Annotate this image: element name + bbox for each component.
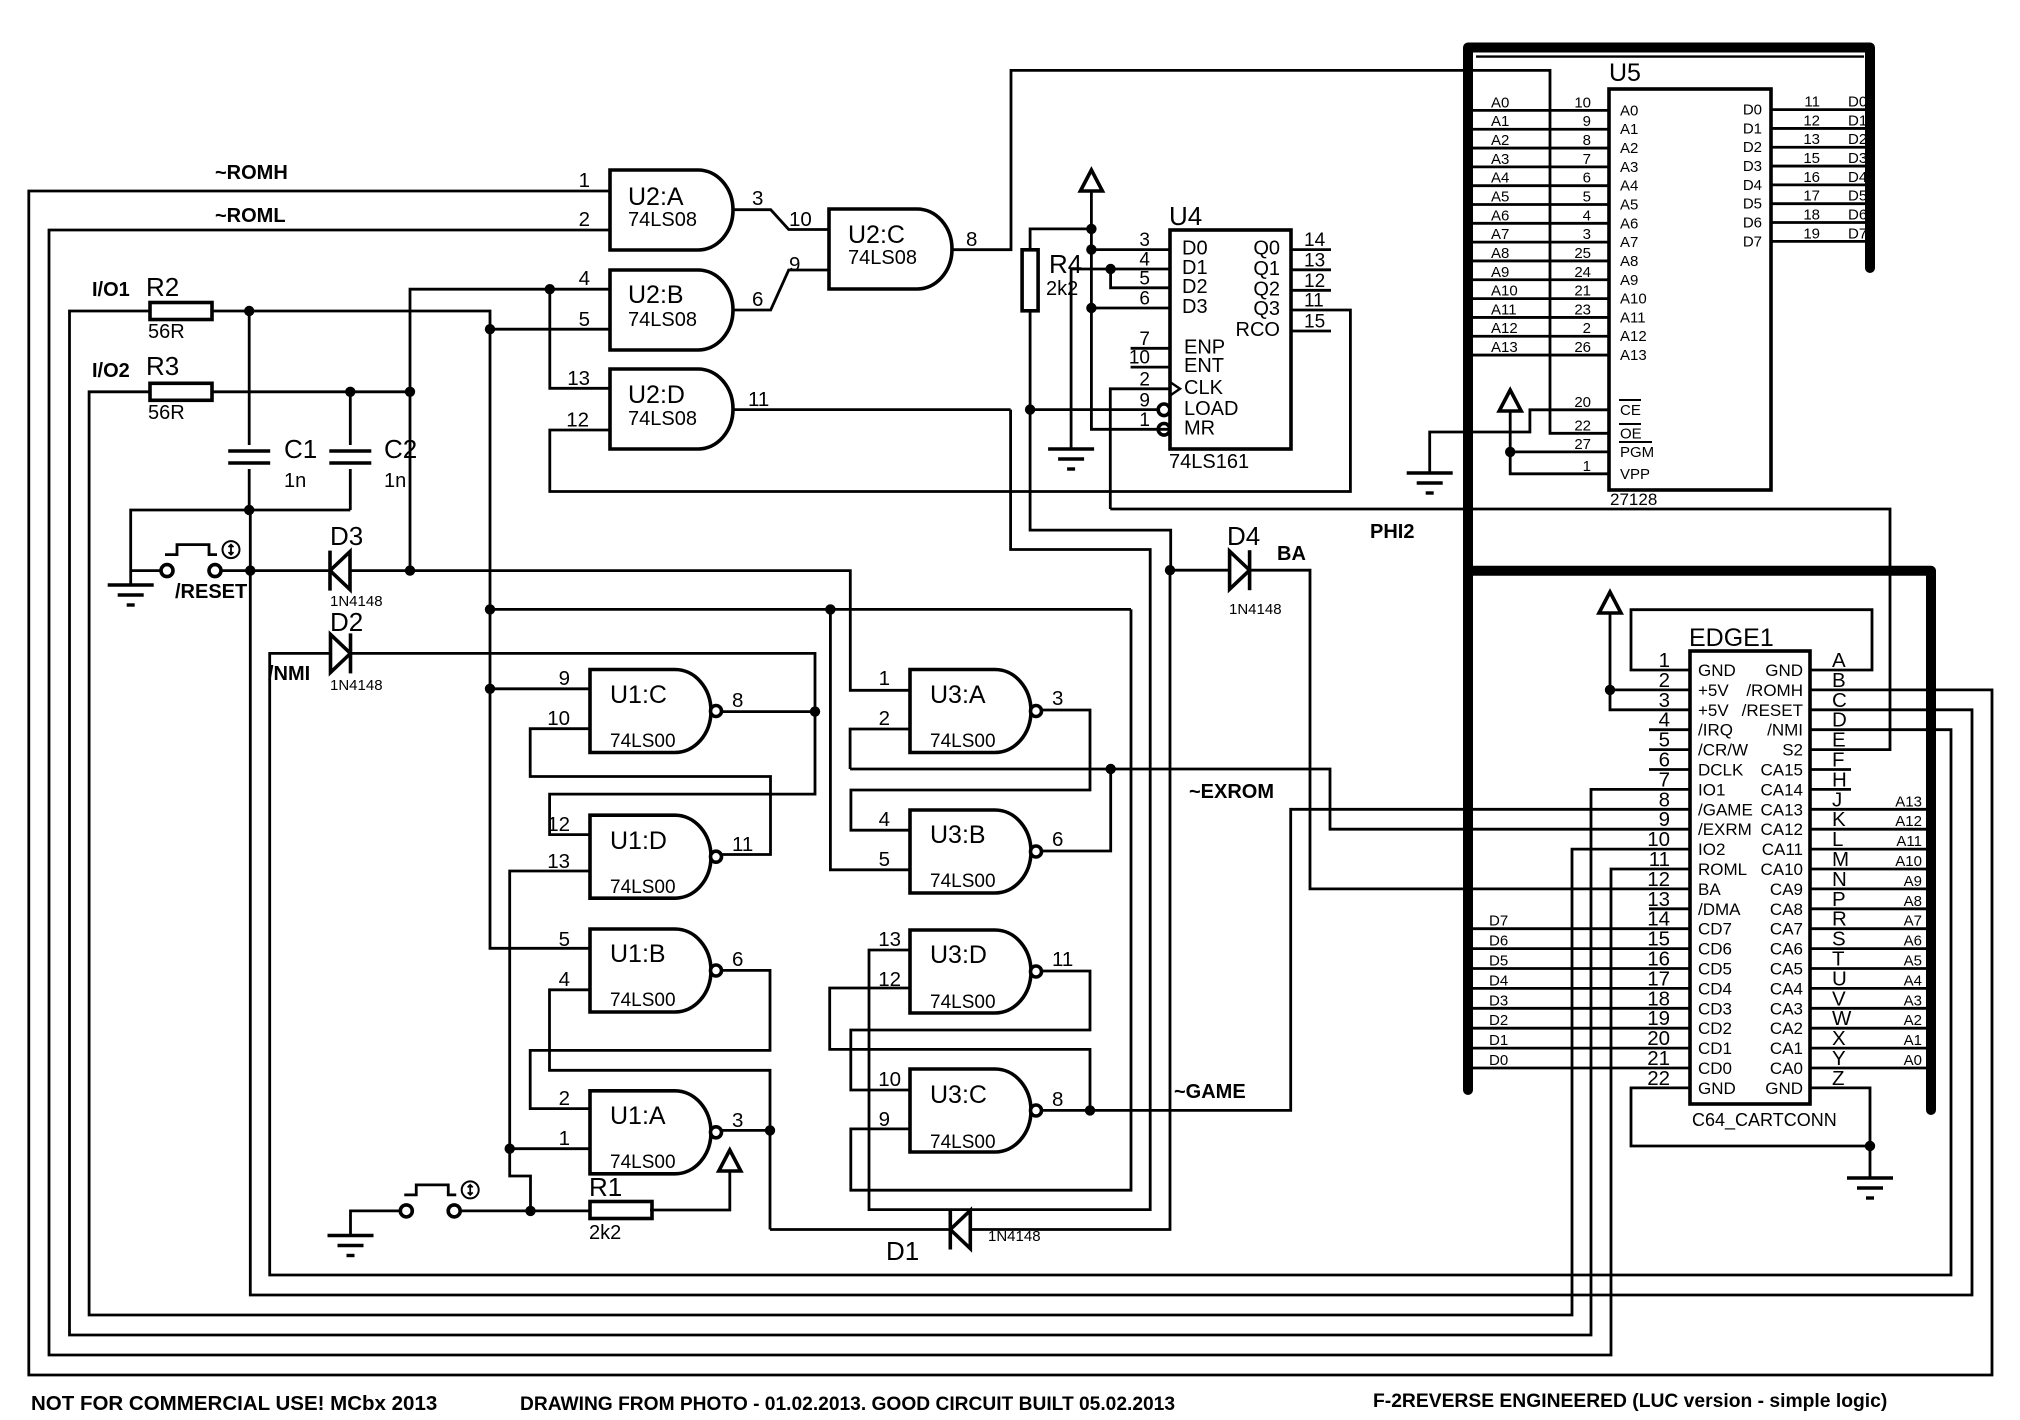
svg-text:16: 16 <box>1803 169 1820 186</box>
wire U5 address A9 pin 24 <box>1473 278 1609 281</box>
svg-text:22: 22 <box>1574 417 1591 434</box>
svg-text:PHI2: PHI2 <box>1370 521 1414 543</box>
svg-text:9: 9 <box>789 253 800 276</box>
svg-text:74LS00: 74LS00 <box>610 731 676 752</box>
gate U2:A 74LS08 <box>610 170 733 250</box>
svg-text:CA7: CA7 <box>1770 920 1803 939</box>
resistor R1 2k2 <box>590 1202 652 1219</box>
svg-text:6: 6 <box>752 288 763 311</box>
svg-text:A4: A4 <box>1904 972 1922 989</box>
svg-text:1N4148: 1N4148 <box>330 677 383 694</box>
svg-text:BA: BA <box>1277 543 1306 565</box>
wire U3:A pin 2 from ~EXROM wire <box>850 729 910 769</box>
svg-text:D2: D2 <box>1743 139 1762 156</box>
svg-text:74LS08: 74LS08 <box>628 209 697 231</box>
svg-text:1n: 1n <box>284 470 306 492</box>
stub ENT pin 10 <box>1131 366 1170 369</box>
ground for U4 D1/D2 <box>1048 449 1094 469</box>
junction D3 net to U2:B pin 4 vertical <box>405 565 415 575</box>
svg-text:1: 1 <box>559 1127 570 1150</box>
svg-text:D7: D7 <box>1848 225 1867 242</box>
svg-text:3: 3 <box>752 187 763 210</box>
wire D2 pin 5 <box>1111 269 1170 288</box>
svg-text:13: 13 <box>1304 250 1325 271</box>
svg-text:21: 21 <box>1574 283 1591 300</box>
svg-text:1n: 1n <box>384 470 406 492</box>
svg-text:PGM: PGM <box>1620 444 1654 461</box>
wire data D5 to EDGE1 pin 16 <box>1473 967 1690 970</box>
wire address A6 EDGE1 pin S to bus <box>1810 947 1926 950</box>
svg-text:U1:D: U1:D <box>610 827 667 855</box>
wire PGM pin 27 <box>1510 450 1609 453</box>
svg-text:74LS08: 74LS08 <box>628 408 697 430</box>
svg-text:/DMA: /DMA <box>1698 900 1741 919</box>
svg-text:A13: A13 <box>1895 793 1922 810</box>
svg-text:27: 27 <box>1574 436 1591 453</box>
svg-text:/GAME: /GAME <box>1698 800 1753 819</box>
wire D0 pin 3 <box>1091 248 1170 251</box>
junction U1:A output to D1 <box>765 1125 775 1135</box>
svg-text:D3: D3 <box>1182 296 1208 318</box>
junction D1/D2 ground tie <box>1105 264 1115 274</box>
bus underline detail <box>1476 55 1864 57</box>
svg-text:A10: A10 <box>1491 283 1518 300</box>
svg-text:4: 4 <box>879 808 890 831</box>
ground for freeze switch <box>328 1236 374 1256</box>
svg-text:U1:C: U1:C <box>610 681 667 709</box>
wire U2:B pin5 net down to U1 latch inputs <box>490 329 590 948</box>
svg-text:CA13: CA13 <box>1760 800 1803 819</box>
svg-text:A7: A7 <box>1491 226 1509 243</box>
svg-text:9: 9 <box>1139 390 1150 411</box>
svg-text:CLK: CLK <box>1184 377 1224 399</box>
svg-text:D4: D4 <box>1743 177 1762 194</box>
svg-text:1: 1 <box>579 169 590 192</box>
svg-text:3: 3 <box>1052 687 1063 710</box>
bus address to EDGE1 (thick) <box>1473 571 1931 1110</box>
svg-text:3: 3 <box>732 1109 743 1132</box>
svg-text:D1: D1 <box>1743 120 1762 137</box>
wire switch right to R1 <box>460 1210 590 1213</box>
svg-text:74LS161: 74LS161 <box>1169 451 1249 473</box>
svg-text:13: 13 <box>1803 131 1820 148</box>
svg-text:2: 2 <box>579 208 590 231</box>
svg-text:U2:D: U2:D <box>628 381 685 409</box>
svg-text:15: 15 <box>1304 312 1325 333</box>
svg-text:U2:B: U2:B <box>628 281 684 309</box>
junction R2/C1 <box>244 306 254 316</box>
svg-text:DCLK: DCLK <box>1698 761 1744 780</box>
svg-text:D5: D5 <box>1489 953 1508 970</box>
svg-text:Z: Z <box>1832 1067 1845 1090</box>
svg-text:25: 25 <box>1574 245 1591 262</box>
svg-text:C2: C2 <box>384 434 417 464</box>
wire U5 data D2 pin 13 <box>1771 146 1865 149</box>
stub Q0 pin 14 <box>1291 248 1331 251</box>
svg-text:A3: A3 <box>1620 159 1638 176</box>
ground for U5 CE <box>1407 473 1453 493</box>
svg-text:A8: A8 <box>1904 893 1922 910</box>
svg-text:23: 23 <box>1574 301 1591 318</box>
svg-text:EDGE1: EDGE1 <box>1689 624 1774 652</box>
svg-text:10: 10 <box>1574 94 1591 111</box>
svg-text:13: 13 <box>567 367 590 390</box>
svg-text:/CR/W: /CR/W <box>1698 741 1748 760</box>
svg-text:8: 8 <box>732 689 743 712</box>
ground for EDGE1 <box>1847 1178 1893 1198</box>
svg-text:6: 6 <box>1052 828 1063 851</box>
stub CA15 pin F <box>1810 768 1851 771</box>
svg-text:6: 6 <box>1139 289 1150 310</box>
svg-text:13: 13 <box>878 928 901 951</box>
svg-text:CA11: CA11 <box>1762 840 1803 859</box>
svg-text:+5V: +5V <box>1698 701 1729 720</box>
wire address A11 EDGE1 pin L to bus <box>1810 848 1926 851</box>
wire net ~GAME to EDGE1 pin 8 /GAME <box>1090 809 1690 1110</box>
wire U1:D.11 to U1:C.10 cross-couple <box>530 729 770 855</box>
wire address A3 EDGE1 pin V to bus <box>1810 1007 1926 1010</box>
svg-text:CD3: CD3 <box>1698 999 1732 1018</box>
wire EDGE1 GND pins 1/A loop <box>1631 610 1872 670</box>
svg-text:11: 11 <box>1804 94 1820 111</box>
wire D1 pin 4 to ground rail <box>1071 269 1170 449</box>
wire U3:D pin 13 from LOAD net loop <box>869 410 1150 1210</box>
svg-text:8: 8 <box>1052 1088 1063 1111</box>
wire U1:B.6 to U1:A.2 cross-couple <box>530 970 770 1108</box>
svg-text:D2: D2 <box>330 607 363 637</box>
svg-text:CA5: CA5 <box>1770 960 1803 979</box>
wire U2:D output 11 <box>734 408 1011 411</box>
svg-text:A3: A3 <box>1904 992 1922 1009</box>
svg-text:5: 5 <box>1583 189 1591 206</box>
junction /RESET takeoff <box>245 565 255 575</box>
svg-text:CE: CE <box>1620 402 1641 419</box>
junction U1:C pin 9 feed <box>485 684 495 694</box>
svg-text:U3:A: U3:A <box>930 681 986 709</box>
svg-text:74LS00: 74LS00 <box>610 877 676 898</box>
wire U3:A.3 to U3:B.4 cross-couple <box>851 710 1090 830</box>
gate U1:B 74LS00 <box>590 929 711 1012</box>
svg-text:2k2: 2k2 <box>589 1222 621 1244</box>
stub /IRQ pin 4 <box>1649 728 1690 731</box>
svg-text:CA2: CA2 <box>1770 1019 1803 1038</box>
svg-text:6: 6 <box>1583 170 1591 187</box>
wire U5 address A4 pin 6 <box>1473 184 1609 187</box>
wire D4 anode <box>1170 569 1229 572</box>
svg-text:9: 9 <box>1583 113 1591 130</box>
wire +5V to pin 2 <box>1610 613 1690 690</box>
svg-text:IO2: IO2 <box>1698 840 1725 859</box>
gate U1:D 74LS00 <box>590 815 711 898</box>
wire R2 right to U2:B pin 5 <box>212 311 610 329</box>
svg-text:U1:B: U1:B <box>610 940 666 968</box>
svg-text:Q1: Q1 <box>1253 258 1280 280</box>
svg-text:A12: A12 <box>1895 813 1922 830</box>
svg-text:18: 18 <box>1803 207 1820 224</box>
svg-text:D5: D5 <box>1848 188 1867 205</box>
svg-text:A11: A11 <box>1620 309 1646 326</box>
svg-text:R2: R2 <box>146 272 179 302</box>
wire U2:B output 6 to U2:C pin 9 <box>734 270 829 310</box>
svg-text:11: 11 <box>1052 948 1073 971</box>
svg-text:/RESET: /RESET <box>175 581 247 603</box>
svg-text:CD0: CD0 <box>1698 1059 1732 1078</box>
svg-text:CD2: CD2 <box>1698 1019 1732 1038</box>
wire U3:C output 8 ~GAME <box>1042 1109 1090 1112</box>
svg-text:74LS00: 74LS00 <box>930 731 996 752</box>
wire data D6 to EDGE1 pin 15 <box>1473 947 1690 950</box>
wire address A1 EDGE1 pin X to bus <box>1810 1047 1926 1050</box>
wire down to R1 node <box>510 1149 531 1211</box>
junction ~GAME node <box>1085 1105 1095 1115</box>
wire LOAD pin 9 <box>1030 408 1158 411</box>
svg-text:3: 3 <box>1583 226 1591 243</box>
wire U5 address A12 pin 2 <box>1473 335 1609 338</box>
wire U5 address A8 pin 25 <box>1473 260 1609 263</box>
wire CE pin 20 to ground <box>1430 410 1609 473</box>
svg-text:A5: A5 <box>1491 189 1509 206</box>
svg-text:A9: A9 <box>1904 873 1922 890</box>
junction +5V to D0 <box>1086 244 1096 254</box>
svg-text:2: 2 <box>879 707 890 730</box>
svg-text:5: 5 <box>579 308 590 331</box>
svg-text:4: 4 <box>559 968 570 991</box>
svg-text:5: 5 <box>559 928 570 951</box>
gate U2:B 74LS08 <box>610 270 733 350</box>
wire U1:C output 8 node <box>722 710 815 713</box>
resistor R3 <box>150 383 212 400</box>
wire CLK pin 2 from PHI2 <box>1110 389 1170 509</box>
svg-text:10: 10 <box>878 1068 901 1091</box>
svg-text:D2: D2 <box>1182 276 1208 298</box>
svg-text:C1: C1 <box>284 434 317 464</box>
gate U2:D 74LS08 <box>610 369 733 449</box>
switch SW1 /RESET pushbutton <box>161 565 173 577</box>
svg-text:CA9: CA9 <box>1770 880 1803 899</box>
svg-text:IO1: IO1 <box>1698 780 1725 799</box>
svg-text:74LS08: 74LS08 <box>628 309 697 331</box>
svg-text:10: 10 <box>789 208 812 231</box>
junction R1/latch node <box>525 1206 535 1216</box>
wire U5 address A0 pin 10 <box>1473 109 1609 112</box>
svg-text:U3:C: U3:C <box>930 1081 987 1109</box>
junction U2:B pin 4 to U2:D pin 13 <box>545 284 555 294</box>
svg-text:A10: A10 <box>1620 291 1647 308</box>
svg-text:15: 15 <box>1803 150 1820 167</box>
svg-text:CA10: CA10 <box>1760 860 1803 879</box>
svg-text:/RESET: /RESET <box>1742 701 1803 720</box>
svg-text:12: 12 <box>1803 112 1820 129</box>
wire R1 right to +5V <box>650 1172 730 1211</box>
svg-text:A7: A7 <box>1620 234 1638 251</box>
svg-text:12: 12 <box>1304 271 1325 292</box>
wire address A10 EDGE1 pin M to bus <box>1810 868 1926 871</box>
wire address A2 EDGE1 pin W to bus <box>1810 1027 1926 1030</box>
svg-text:5: 5 <box>1139 268 1150 289</box>
svg-text:A13: A13 <box>1620 347 1647 364</box>
svg-text:6: 6 <box>732 948 743 971</box>
svg-text:CA12: CA12 <box>1760 820 1803 839</box>
svg-text:/NMI: /NMI <box>268 663 310 685</box>
wire switch left to ground rail <box>131 569 161 572</box>
svg-text:10: 10 <box>547 707 570 730</box>
svg-text:A5: A5 <box>1904 953 1922 970</box>
diode D4 1N4148 <box>1248 550 1252 590</box>
svg-text:A13: A13 <box>1491 339 1518 356</box>
wire data D4 to EDGE1 pin 17 <box>1473 987 1690 990</box>
svg-text:11: 11 <box>732 833 753 856</box>
junction R3 to U2:B pin 4 net <box>405 387 415 397</box>
svg-text:D0: D0 <box>1489 1052 1508 1069</box>
junction +5V to D3 <box>1086 303 1096 313</box>
power +5V arrow at U4 <box>1080 170 1102 191</box>
svg-text:2k2: 2k2 <box>1046 278 1078 300</box>
svg-text:~ROML: ~ROML <box>215 205 286 227</box>
wire R3 right to reset-gate vertical <box>212 390 410 393</box>
wire /RESET down to bottom loop to EDGE1 pin C <box>250 510 1972 1295</box>
wire address A4 EDGE1 pin U to bus <box>1810 987 1926 990</box>
wire U3:B pin 5 from net609 <box>830 609 910 869</box>
wire C2 bottom lead <box>349 469 352 510</box>
svg-text:CD1: CD1 <box>1698 1039 1732 1058</box>
gate U3:B 74LS00 <box>910 810 1031 893</box>
svg-text:D0: D0 <box>1743 102 1762 119</box>
svg-text:/EXRM: /EXRM <box>1698 820 1752 839</box>
wire R4 bottom lead <box>1029 311 1032 410</box>
svg-text:8: 8 <box>966 228 977 251</box>
junction net609 at x830 <box>825 604 835 614</box>
svg-text:1: 1 <box>1139 410 1150 431</box>
wire data D3 to EDGE1 pin 18 <box>1473 1007 1690 1010</box>
svg-text:D1: D1 <box>1489 1032 1508 1049</box>
wire U5 data D7 pin 19 <box>1771 240 1865 243</box>
gate U2:C 74LS08 <box>829 209 952 289</box>
svg-text:2: 2 <box>559 1087 570 1110</box>
svg-text:9: 9 <box>559 667 570 690</box>
stub Q1 pin 13 <box>1291 268 1331 271</box>
resistor R4 2k2 <box>1022 250 1038 311</box>
gate U1:C 74LS00 <box>590 670 711 753</box>
svg-text:A0: A0 <box>1904 1052 1922 1069</box>
svg-text:C64_CARTCONN: C64_CARTCONN <box>1692 1110 1837 1131</box>
svg-text:/ROMH: /ROMH <box>1746 681 1803 700</box>
gate U3:C 74LS00 <box>910 1069 1031 1152</box>
wire data D1 to EDGE1 pin 20 <box>1473 1047 1690 1050</box>
svg-text:A5: A5 <box>1620 197 1638 214</box>
wire D1 anode right and up to LOAD net <box>971 570 1170 1229</box>
wire U1:A pin 1 node <box>510 1147 590 1150</box>
wire Q3 pin 11 to U2:D pin 12 loop <box>550 310 1351 492</box>
svg-text:CD4: CD4 <box>1698 979 1732 998</box>
stub ENP pin 7 <box>1131 347 1170 350</box>
wire address A7 EDGE1 pin R to bus <box>1810 927 1926 930</box>
wire U1:D pin 13 from R1 node <box>510 871 590 1149</box>
svg-text:D6: D6 <box>1489 933 1508 950</box>
svg-text:A12: A12 <box>1620 328 1647 345</box>
svg-text:D1: D1 <box>886 1236 919 1266</box>
wire data D0 to EDGE1 pin 21 <box>1473 1067 1690 1070</box>
wire U5 data D6 pin 18 <box>1771 221 1865 224</box>
svg-text:+5V: +5V <box>1698 681 1729 700</box>
wire jog to R4 top <box>1030 229 1091 250</box>
svg-text:A6: A6 <box>1620 215 1638 232</box>
svg-text:~EXROM: ~EXROM <box>1189 781 1274 803</box>
svg-text:D3: D3 <box>1743 158 1762 175</box>
wire C1 top lead <box>248 311 251 445</box>
svg-text:A4: A4 <box>1491 170 1509 187</box>
wire address A12 EDGE1 pin K to bus <box>1810 828 1926 831</box>
bus address/data to U5 (thick) <box>1468 48 1870 1091</box>
stub /CR/W pin 5 <box>1649 748 1690 751</box>
svg-text:Q0: Q0 <box>1253 238 1280 260</box>
wire U5 data D1 pin 12 <box>1771 127 1865 130</box>
svg-text:11: 11 <box>1304 291 1324 312</box>
svg-text:U5: U5 <box>1609 59 1641 87</box>
svg-text:D2: D2 <box>1848 131 1867 148</box>
stub DCLK pin 6 <box>1649 768 1690 771</box>
wire U1 latch output to D1 cathode <box>770 1228 949 1231</box>
stub Q2 pin 12 <box>1291 289 1331 292</box>
svg-text:14: 14 <box>1304 230 1326 251</box>
svg-text:22: 22 <box>1647 1067 1670 1090</box>
svg-text:A3: A3 <box>1491 151 1509 168</box>
wire U5 address A1 pin 9 <box>1473 128 1609 131</box>
svg-text:56R: 56R <box>148 402 185 424</box>
diode D2 1N4148 <box>349 633 353 673</box>
wire C2 top lead <box>349 392 352 445</box>
LOAD inverter bubble U4 <box>1158 404 1170 416</box>
svg-text:/NMI: /NMI <box>1767 721 1803 740</box>
switch SW2 freeze pushbutton <box>400 1205 412 1217</box>
svg-text:D6: D6 <box>1848 207 1867 224</box>
wire U3:D.11 to U3:C.10 cross-couple <box>851 971 1090 1090</box>
svg-text:1: 1 <box>879 667 890 690</box>
svg-text:A1: A1 <box>1904 1032 1922 1049</box>
wire PHI2 to EDGE1 S2 <box>1110 509 1890 750</box>
svg-text:A7: A7 <box>1904 913 1922 930</box>
wire U1:A output 3 <box>722 1129 770 1132</box>
junction LOAD net to R4 <box>1025 404 1035 414</box>
svg-text:GND: GND <box>1698 1079 1736 1098</box>
svg-text:12: 12 <box>566 409 589 432</box>
MR inverter bubble U4 <box>1158 424 1170 436</box>
wire U5 address A13 pin 26 <box>1473 354 1609 357</box>
svg-text:MR: MR <box>1184 417 1215 439</box>
svg-text:D1: D1 <box>1848 112 1867 129</box>
wire +5V to PGM pin 27 <box>1510 411 1609 474</box>
svg-text:A0: A0 <box>1491 94 1509 111</box>
svg-text:U3:B: U3:B <box>930 821 986 849</box>
svg-text:74LS00: 74LS00 <box>610 990 676 1011</box>
junction U1:C output <box>810 706 820 716</box>
svg-text:3: 3 <box>1139 230 1150 251</box>
svg-text:A2: A2 <box>1620 140 1638 157</box>
svg-text:2: 2 <box>1583 320 1591 337</box>
svg-text:CD5: CD5 <box>1698 960 1732 979</box>
svg-text:R4: R4 <box>1049 249 1082 279</box>
chip U4 74LS161 <box>1170 230 1291 449</box>
svg-text:74LS00: 74LS00 <box>930 992 996 1013</box>
svg-text:A12: A12 <box>1491 320 1518 337</box>
wire U1:C.8 to U1:D.12 cross-couple <box>550 712 815 835</box>
svg-text:U2:A: U2:A <box>628 183 684 211</box>
svg-text:/IRQ: /IRQ <box>1698 721 1733 740</box>
svg-text:A0: A0 <box>1620 102 1638 119</box>
wire EDGE1 GND pins 22/Z loop <box>1631 1088 1870 1146</box>
svg-text:A9: A9 <box>1620 272 1638 289</box>
svg-text:A11: A11 <box>1896 833 1922 850</box>
wire data D7 to EDGE1 pin 14 <box>1473 927 1690 930</box>
